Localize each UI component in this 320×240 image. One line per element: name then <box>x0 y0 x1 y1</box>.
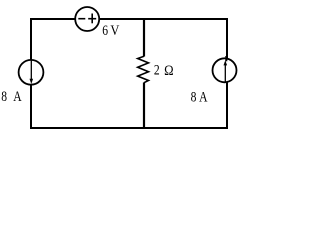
current source I1 left circle <box>19 60 44 85</box>
wire stub into right circle <box>225 56 227 61</box>
current source I1 value label 8 A <box>1 88 22 105</box>
current source I2 right circle <box>213 58 237 82</box>
svg-text:8: 8 <box>191 88 197 105</box>
svg-text:Ω: Ω <box>164 62 173 78</box>
svg-text:A: A <box>13 88 22 105</box>
voltage source value label 6 V <box>102 22 119 39</box>
voltage source minus sign <box>78 18 85 20</box>
svg-text:V: V <box>110 22 119 38</box>
current source I2 arrow (up) <box>224 62 226 82</box>
voltage source plus sign <box>88 18 96 20</box>
wire outer loop <box>31 19 227 128</box>
resistor R 2ohm zigzag <box>138 56 149 82</box>
current source I2 value label 8 A <box>191 88 208 105</box>
resistor value label 2 ohm <box>154 61 174 78</box>
wire middle branch top <box>143 18 145 57</box>
wire middle branch bottom <box>143 83 145 130</box>
current source I1 arrow (down) <box>30 59 32 79</box>
svg-text:8: 8 <box>1 88 7 105</box>
svg-text:A: A <box>199 88 208 105</box>
svg-text:6: 6 <box>102 22 108 39</box>
svg-text:2: 2 <box>154 61 160 78</box>
voltage source V1 circle <box>75 7 99 31</box>
